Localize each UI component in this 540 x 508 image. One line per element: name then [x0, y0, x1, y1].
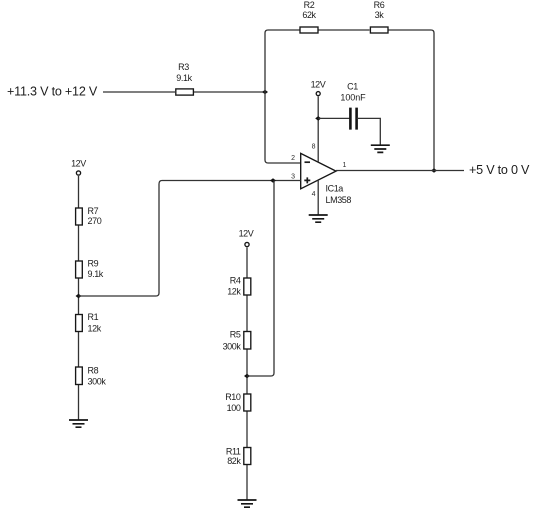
resistor R2 [300, 27, 318, 33]
resistor R6 [370, 27, 388, 33]
svg-text:R5: R5 [230, 330, 241, 340]
svg-text:R9: R9 [88, 259, 99, 269]
node output junction [431, 168, 437, 173]
svg-text:R7: R7 [88, 206, 99, 216]
svg-text:R3: R3 [178, 62, 189, 72]
resistor R3 [176, 89, 194, 95]
node C1 junction [315, 116, 321, 121]
wire left divider chain [78, 176, 80, 420]
ground left divider [69, 420, 88, 427]
capacitor C1 [350, 108, 356, 130]
ground middle divider [238, 500, 257, 507]
wire R3 to node [194, 91, 265, 93]
node input junction [262, 90, 268, 95]
wire middle divider chain [246, 247, 248, 500]
node left divider junction [76, 294, 82, 299]
op-amp plus sign [304, 177, 310, 183]
node middle divider junction [244, 374, 250, 379]
resistor R1 [76, 315, 83, 332]
svg-text:82k: 82k [227, 456, 241, 466]
resistor R9 [76, 261, 83, 278]
svg-text:9.1k: 9.1k [88, 269, 104, 279]
svg-text:R2: R2 [304, 0, 315, 10]
svg-text:LM358: LM358 [326, 195, 352, 205]
svg-text:R10: R10 [225, 392, 241, 402]
resistor R4 [244, 278, 251, 295]
svg-text:12V: 12V [311, 79, 326, 89]
op-amp U1 triangle [301, 153, 336, 188]
svg-text:100nF: 100nF [340, 93, 366, 103]
svg-text:R1: R1 [88, 312, 99, 322]
svg-text:+5 V to 0 V: +5 V to 0 V [469, 163, 530, 177]
op-amp minus sign [305, 161, 311, 163]
terminal 12V middle circle [245, 242, 249, 246]
svg-text:270: 270 [88, 216, 102, 226]
resistor R5 [244, 332, 251, 350]
svg-text:12V: 12V [71, 159, 86, 169]
wire junction to C1 [318, 117, 350, 119]
svg-text:9.1k: 9.1k [176, 73, 192, 83]
svg-text:R8: R8 [88, 365, 99, 375]
node pin3 junction [270, 178, 276, 183]
ground C1 [371, 145, 390, 152]
wire node to pin3 line [247, 181, 274, 377]
svg-text:R11: R11 [226, 446, 241, 456]
svg-text:3k: 3k [375, 10, 385, 20]
wire C1 to ground [357, 118, 381, 145]
resistor R8 [76, 367, 83, 385]
svg-text:12k: 12k [227, 287, 241, 297]
svg-text:100: 100 [227, 403, 241, 413]
wire feedback right vertical [389, 30, 435, 171]
wire between R2 and R6 [319, 29, 370, 31]
svg-text:C1: C1 [347, 82, 358, 92]
svg-text:3: 3 [291, 173, 295, 180]
svg-text:300k: 300k [223, 341, 242, 351]
svg-text:R4: R4 [230, 275, 241, 285]
resistor R7 [76, 208, 83, 225]
wire output pin 1 [336, 170, 464, 172]
svg-text:12V: 12V [239, 229, 254, 239]
wire feedback left vertical [265, 30, 301, 163]
svg-text:4: 4 [312, 191, 316, 198]
resistor R11 [244, 448, 251, 465]
resistor R10 [244, 394, 251, 411]
svg-text:+11.3 V to +12 V: +11.3 V to +12 V [7, 85, 98, 99]
svg-text:2: 2 [291, 155, 295, 162]
terminal 12V left circle [76, 171, 80, 175]
wire pin 4 down [317, 180, 319, 215]
svg-text:1: 1 [343, 162, 347, 169]
wire node to op-amp pin 3 [79, 181, 301, 297]
wire pin 8 to 12V terminal [317, 96, 319, 162]
svg-text:300k: 300k [88, 376, 107, 386]
svg-text:62k: 62k [302, 10, 316, 20]
svg-text:8: 8 [312, 144, 316, 151]
wire input row from label to R3 [103, 91, 175, 93]
svg-text:IC1a: IC1a [326, 183, 344, 193]
terminal 12V opamp circle [316, 92, 320, 96]
svg-text:R6: R6 [374, 0, 385, 10]
svg-text:12k: 12k [88, 323, 102, 333]
ground op-amp [309, 215, 328, 222]
